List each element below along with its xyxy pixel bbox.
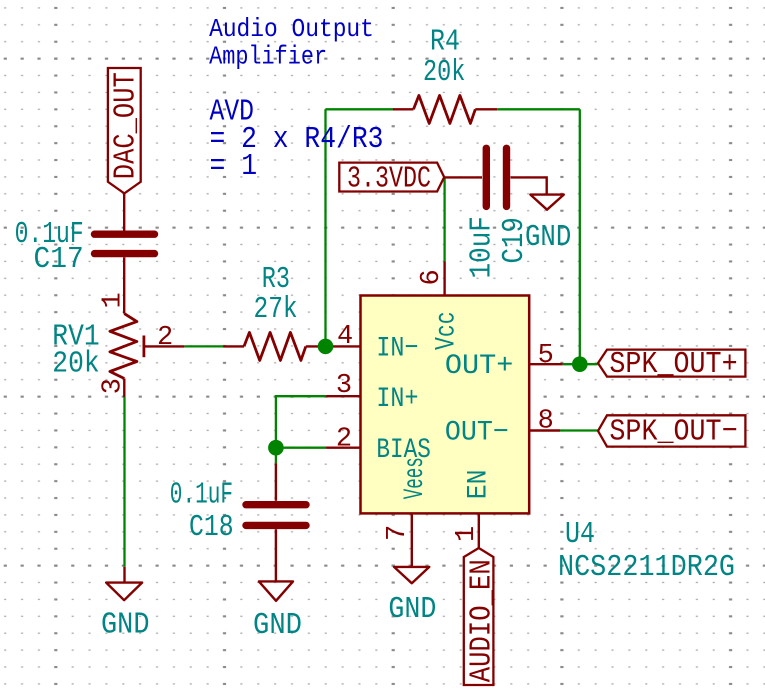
svg-text:GND: GND xyxy=(525,220,571,255)
wire BIAS xyxy=(276,447,326,449)
resistor R4 xyxy=(393,25,497,124)
wire C18 to GND xyxy=(275,529,277,581)
power label 3.3VDC xyxy=(339,161,444,196)
global label SPK_OUT- xyxy=(598,414,745,449)
global label DAC_OUT xyxy=(108,68,143,193)
wire feedback top left xyxy=(326,108,393,110)
svg-text:EN: EN xyxy=(463,470,494,500)
svg-text:6: 6 xyxy=(417,269,447,285)
wire to C18 top xyxy=(275,463,277,501)
svg-text:3.3VDC: 3.3VDC xyxy=(347,161,431,196)
wire IN+ corner xyxy=(276,396,326,448)
ground symbol at C19 xyxy=(525,195,571,256)
svg-text:1: 1 xyxy=(99,292,129,308)
svg-text:IN−: IN− xyxy=(376,333,418,364)
wire pin5 to SPK_OUT+ xyxy=(563,363,598,365)
svg-text:3: 3 xyxy=(336,371,352,401)
svg-text:GND: GND xyxy=(388,592,436,627)
resistor R3 xyxy=(223,262,325,361)
svg-text:IN+: IN+ xyxy=(376,384,418,415)
ground symbol left xyxy=(101,567,150,643)
pin 8 line xyxy=(529,429,560,431)
junction at R3 out xyxy=(318,339,334,355)
note AVD formula xyxy=(210,95,384,184)
pin 2 line xyxy=(326,447,360,449)
pin 6 line xyxy=(443,262,445,296)
capacitor C18 xyxy=(170,478,306,545)
wire feedback right vertical xyxy=(579,109,581,364)
svg-text:DAC_OUT: DAC_OUT xyxy=(108,72,143,179)
capacitor C17 xyxy=(15,217,155,277)
svg-text:OUT−: OUT− xyxy=(445,418,509,449)
svg-text:7: 7 xyxy=(383,525,413,541)
svg-text:C17: C17 xyxy=(34,242,84,277)
svg-text:2: 2 xyxy=(157,323,173,353)
svg-text:U4: U4 xyxy=(565,517,595,552)
svg-text:= 1: = 1 xyxy=(210,149,258,184)
svg-text:20k: 20k xyxy=(423,55,465,90)
wire pin8 to SPK_OUT- xyxy=(560,429,598,431)
potentiometer RV1 xyxy=(52,314,184,382)
wire junction to C18 xyxy=(275,448,277,464)
svg-text:SPK_OUT+: SPK_OUT+ xyxy=(609,347,737,382)
svg-text:Audio Output: Audio Output xyxy=(209,14,374,44)
note Audio Output Amplifier xyxy=(209,14,374,71)
junction at BIAS xyxy=(268,440,284,456)
ground symbol at pin 7 xyxy=(388,567,436,627)
global label SPK_OUT+ xyxy=(598,347,745,382)
svg-text:AUDIO_EN: AUDIO_EN xyxy=(465,559,500,682)
pin 5 line xyxy=(529,363,563,365)
svg-text:Vcc: Vcc xyxy=(432,311,463,350)
junction at OUT+ xyxy=(572,356,588,372)
svg-text:27k: 27k xyxy=(254,292,298,327)
wire C19 to GND corner xyxy=(511,177,547,194)
wire wiper to R3 xyxy=(184,345,223,347)
svg-text:10uF: 10uF xyxy=(465,216,500,278)
wire 3.3VDC down to pin 6 xyxy=(443,177,445,261)
ground symbol at C18 xyxy=(253,581,302,643)
svg-text:2: 2 xyxy=(336,424,352,454)
svg-text:NCS2211DR2G: NCS2211DR2G xyxy=(558,550,735,585)
pin 3 line xyxy=(326,395,360,397)
svg-text:8: 8 xyxy=(538,407,554,437)
wire RV1 pin3 lead xyxy=(123,379,125,398)
capacitor C19 xyxy=(465,148,532,278)
svg-text:4: 4 xyxy=(337,322,353,352)
pin 7 line xyxy=(411,513,413,567)
wire DAC_OUT to C17 xyxy=(123,193,125,231)
svg-text:C18: C18 xyxy=(189,510,234,545)
pin 4 line xyxy=(326,345,361,347)
global label AUDIO_EN xyxy=(464,548,500,685)
pin 1 line xyxy=(478,513,480,548)
svg-text:5: 5 xyxy=(538,341,554,371)
svg-text:0.1uF: 0.1uF xyxy=(170,478,233,513)
svg-text:SPK_OUT−: SPK_OUT− xyxy=(609,414,737,449)
wire 3.3VDC to C19 xyxy=(444,176,482,178)
svg-text:OUT+: OUT+ xyxy=(445,351,514,382)
svg-text:GND: GND xyxy=(101,608,150,643)
svg-text:20k: 20k xyxy=(52,347,99,382)
op-amp U4 body xyxy=(361,296,530,514)
svg-text:1: 1 xyxy=(452,526,482,542)
wire feedback left vertical xyxy=(324,109,326,346)
svg-text:Vees: Vees xyxy=(400,457,431,499)
wire RV1 to GND xyxy=(123,397,125,567)
wire feedback top right xyxy=(497,108,580,110)
wire C17 to RV1 pin 1 xyxy=(123,257,125,313)
svg-text:Amplifier: Amplifier xyxy=(209,41,327,71)
svg-text:GND: GND xyxy=(253,608,302,643)
